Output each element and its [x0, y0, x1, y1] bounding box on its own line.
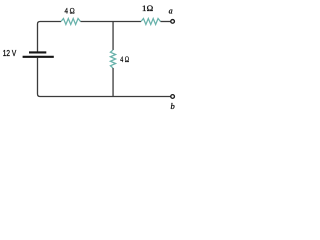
svg-text:12 V: 12 V	[3, 49, 17, 58]
wire: top junction down to R3	[112, 22, 114, 51]
battery V1 long (bottom) plate	[23, 56, 54, 58]
terminal b (open circle)	[171, 95, 175, 99]
svg-text:4 Ω: 4 Ω	[120, 54, 129, 64]
battery V1 short (top) plate	[29, 51, 46, 53]
svg-text:Ω: Ω	[147, 3, 154, 13]
resistor R2 1-ohm horizontal zigzag	[141, 19, 161, 25]
resistor R1 4-ohm horizontal zigzag	[61, 19, 81, 25]
svg-text:a: a	[169, 7, 173, 16]
wire: battery positive up to top-left corner, right to R1	[38, 22, 62, 52]
svg-text:b: b	[171, 101, 175, 111]
wire: battery negative down to bottom-left corner, right to terminal b	[38, 58, 171, 97]
wire: R3 down to bottom rail junction	[112, 68, 114, 97]
resistor R3 4-ohm vertical zigzag	[110, 50, 115, 68]
terminal a (open circle)	[171, 20, 175, 24]
svg-text:4 Ω: 4 Ω	[65, 5, 76, 15]
wire: R1 to junction to R2	[81, 21, 142, 23]
wire: R2 to terminal a	[161, 21, 171, 23]
